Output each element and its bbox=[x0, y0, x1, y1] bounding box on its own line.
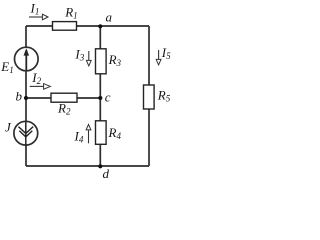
wire middle horizontal (node b through R2 to node c) bbox=[26, 97, 100, 99]
node b bbox=[16, 89, 29, 104]
EMF source E1 (circle with upward arrow) bbox=[0, 47, 38, 75]
wire right (top-right corner down through R5 to bottom-right corner) bbox=[148, 26, 150, 166]
resistor R5 bbox=[144, 85, 171, 109]
wire bottom (bottom-left corner through node d to bottom-right corner) bbox=[26, 165, 149, 167]
node d bbox=[98, 164, 109, 181]
svg-text:d: d bbox=[103, 166, 110, 181]
resistor R2 bbox=[51, 93, 77, 116]
resistor R1 bbox=[53, 5, 78, 31]
current arrow I2 with label bbox=[30, 70, 51, 89]
current arrow I5 with label bbox=[156, 45, 171, 65]
resistor R3 bbox=[96, 49, 122, 74]
current arrow I4 with label bbox=[74, 124, 91, 144]
svg-text:c: c bbox=[105, 90, 111, 105]
wire top (from top-left corner through R1 and node a to top-right corner) bbox=[26, 25, 149, 27]
current source J (circle with double downward chevron) bbox=[5, 120, 38, 146]
wire middle vertical (node a through R3, node c, R4 to node d) bbox=[99, 26, 101, 166]
svg-text:a: a bbox=[106, 9, 113, 24]
current arrow I1 with label bbox=[29, 1, 48, 20]
current arrow I3 with label bbox=[74, 47, 91, 66]
svg-text:b: b bbox=[16, 89, 23, 104]
node a bbox=[98, 9, 112, 28]
node c bbox=[98, 90, 111, 105]
wire left (top-left corner down through E1, node b, J to bottom-left corner) bbox=[25, 26, 27, 166]
resistor R4 bbox=[96, 121, 122, 145]
